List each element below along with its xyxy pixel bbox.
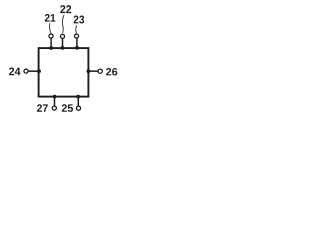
wire pin 26 [88, 70, 97, 72]
wire pin 23 [76, 38, 78, 48]
component body U1 [39, 48, 89, 97]
terminal circle 26 [98, 69, 102, 73]
terminal circle 22 [60, 34, 64, 38]
label pin 25 [62, 104, 73, 112]
label pin 27 [37, 104, 48, 111]
leader 22 [62, 15, 64, 34]
label pin 21 [45, 14, 56, 22]
wire pin 27 [54, 97, 56, 106]
wire pin 21 [50, 38, 52, 48]
wire pin 25 [77, 97, 79, 106]
junction pin 26 [87, 69, 91, 73]
leader 21 [50, 23, 51, 33]
leader 23 [75, 25, 78, 33]
wire pin 24 [28, 70, 39, 72]
terminal circle 24 [24, 69, 28, 73]
junction pin 23 [75, 46, 79, 50]
label pin 22 [60, 5, 71, 13]
junction pin 21 [49, 46, 53, 50]
label pin 23 [74, 16, 85, 24]
terminal circle 25 [76, 106, 80, 110]
wire pin 22 [62, 39, 64, 49]
terminal circle 21 [49, 34, 53, 38]
terminal circle 23 [74, 34, 78, 38]
junction pin 27 [53, 95, 57, 99]
junction pin 25 [76, 95, 80, 99]
terminal circle 27 [52, 106, 56, 110]
junction pin 22 [61, 46, 65, 50]
label pin 24 [9, 68, 21, 76]
label pin 26 [106, 68, 117, 76]
junction pin 24 [37, 69, 41, 73]
